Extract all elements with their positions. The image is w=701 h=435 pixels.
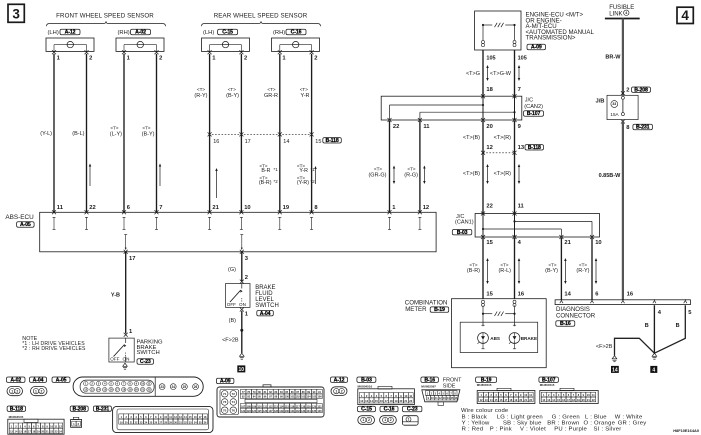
svg-text:SIDE: SIDE <box>443 383 456 389</box>
svg-text:A-12: A-12 <box>334 377 345 383</box>
svg-text:108: 108 <box>247 405 252 408</box>
svg-text:10: 10 <box>141 382 144 386</box>
svg-text:(GR-G): (GR-G) <box>368 173 386 179</box>
svg-text:(B-Y): (B-Y) <box>142 131 155 137</box>
svg-text:MU804545: MU804545 <box>9 415 24 419</box>
svg-text:(L-Y): (L-Y) <box>110 131 122 137</box>
svg-text:OFF: OFF <box>110 357 119 362</box>
svg-text:B-03: B-03 <box>361 377 372 383</box>
svg-text:16: 16 <box>380 399 383 403</box>
svg-text:A-05: A-05 <box>20 222 31 228</box>
svg-text:MU804515: MU804515 <box>477 383 492 387</box>
svg-text:(R-L): (R-L) <box>498 268 511 274</box>
svg-text:R : Red: R : Red <box>462 427 484 433</box>
svg-text:134: 134 <box>307 410 312 413</box>
svg-text:131: 131 <box>290 410 295 413</box>
svg-text:2: 2 <box>16 389 18 393</box>
svg-text:26: 26 <box>194 385 198 389</box>
svg-text:18: 18 <box>122 388 125 392</box>
svg-text:B-231: B-231 <box>636 125 650 131</box>
svg-text:133: 133 <box>301 410 306 413</box>
svg-text:ABS: ABS <box>490 336 500 341</box>
svg-text:<T>: <T> <box>142 125 150 130</box>
svg-text:136: 136 <box>317 410 322 413</box>
svg-text:OFF: OFF <box>227 302 236 307</box>
svg-text:104: 104 <box>307 396 312 399</box>
svg-text:(B-Y): (B-Y) <box>545 268 558 274</box>
svg-text:1: 1 <box>11 389 13 393</box>
svg-text:22: 22 <box>393 124 399 130</box>
svg-text:(Y-L): (Y-L) <box>40 131 52 137</box>
svg-text:33: 33 <box>612 102 616 106</box>
svg-text:Y-B: Y-B <box>111 292 120 298</box>
svg-text:1: 1 <box>362 418 364 422</box>
svg-text:4: 4 <box>625 11 627 15</box>
svg-text:(LH): (LH) <box>48 30 59 36</box>
svg-text:12: 12 <box>423 205 429 211</box>
svg-text:1: 1 <box>408 417 410 421</box>
svg-text:72: 72 <box>232 392 236 396</box>
svg-text:20: 20 <box>486 124 492 130</box>
svg-text:A-12: A-12 <box>65 30 76 36</box>
svg-text:120: 120 <box>312 405 317 408</box>
svg-text:4: 4 <box>681 8 689 23</box>
svg-text:71: 71 <box>223 392 227 396</box>
svg-text:19: 19 <box>395 399 398 403</box>
svg-text:21: 21 <box>404 399 407 403</box>
svg-text:SWITCH: SWITCH <box>137 350 160 356</box>
svg-text:21: 21 <box>564 240 571 246</box>
svg-text:<T>G: <T>G <box>466 71 480 77</box>
svg-text:A-02: A-02 <box>10 377 21 383</box>
svg-text:23: 23 <box>160 385 164 389</box>
svg-text:0.85B-W: 0.85B-W <box>599 173 622 179</box>
svg-text:*2: *2 <box>274 179 279 184</box>
svg-text:22: 22 <box>409 399 412 403</box>
svg-text:(LH): (LH) <box>203 30 214 36</box>
svg-text:18: 18 <box>486 87 493 93</box>
svg-text:<T>: <T> <box>300 87 308 92</box>
svg-text:(R-Y): (R-Y) <box>194 93 207 99</box>
svg-text:GR : Grey: GR : Grey <box>618 421 647 427</box>
svg-text:2: 2 <box>341 389 343 393</box>
svg-text:MU804516: MU804516 <box>358 385 373 389</box>
svg-text:17: 17 <box>116 388 119 392</box>
svg-text:73: 73 <box>223 400 227 404</box>
svg-text:B-03: B-03 <box>457 230 468 236</box>
svg-text:C-16: C-16 <box>384 407 395 413</box>
svg-text:25: 25 <box>183 385 187 389</box>
svg-text:21: 21 <box>212 205 219 211</box>
svg-text:*1: *1 <box>274 167 279 172</box>
svg-text:<T>: <T> <box>500 262 508 267</box>
svg-text:19: 19 <box>129 388 132 392</box>
svg-text:<T>: <T> <box>374 166 382 171</box>
svg-text:(RH): (RH) <box>273 30 285 36</box>
svg-text:C-15: C-15 <box>361 407 372 413</box>
svg-text:107: 107 <box>241 405 246 408</box>
svg-text:H8F10E164A0: H8F10E164A0 <box>673 428 699 433</box>
svg-text:128: 128 <box>274 410 279 413</box>
svg-text:A-09: A-09 <box>531 45 542 51</box>
svg-text:<T>: <T> <box>110 125 118 130</box>
svg-text:13: 13 <box>365 399 368 403</box>
svg-text:BRAKE: BRAKE <box>521 336 537 341</box>
svg-text:<T>: <T> <box>267 87 275 92</box>
svg-text:FUSIBLE: FUSIBLE <box>609 5 634 11</box>
svg-text:132: 132 <box>296 410 301 413</box>
svg-text:<T>: <T> <box>469 262 477 267</box>
svg-text:11: 11 <box>423 124 430 130</box>
svg-text:17: 17 <box>129 256 135 262</box>
svg-text:15A: 15A <box>610 112 619 117</box>
svg-text:135: 135 <box>312 410 317 413</box>
svg-text:106: 106 <box>317 396 322 399</box>
svg-text:101: 101 <box>290 396 295 399</box>
svg-text:12: 12 <box>360 399 363 403</box>
svg-text:<T>(B): <T>(B) <box>463 171 480 177</box>
svg-text:J/C: J/C <box>525 98 533 104</box>
svg-text:22: 22 <box>89 205 95 211</box>
svg-text:2: 2 <box>159 56 162 62</box>
svg-text:<T>: <T> <box>579 262 587 267</box>
svg-text:20: 20 <box>135 388 138 392</box>
svg-text:B: B <box>676 323 680 329</box>
svg-text:Wire colour code: Wire colour code <box>461 408 509 414</box>
svg-text:2: 2 <box>244 56 247 62</box>
svg-text:2: 2 <box>626 88 629 94</box>
svg-text:10: 10 <box>239 367 245 373</box>
svg-text:12: 12 <box>486 145 492 151</box>
svg-text:7: 7 <box>518 87 521 93</box>
svg-text:11: 11 <box>57 205 64 211</box>
svg-text:(CAN1): (CAN1) <box>455 220 474 226</box>
svg-text:123: 123 <box>247 410 252 413</box>
svg-text:20: 20 <box>399 399 402 403</box>
svg-text:<T>(B): <T>(B) <box>463 135 480 141</box>
svg-text:2: 2 <box>41 389 43 393</box>
svg-text:<T>(R): <T>(R) <box>494 171 512 177</box>
svg-text:B-208: B-208 <box>73 406 87 412</box>
svg-text:*2: *2 <box>311 179 316 184</box>
svg-text:B: B <box>645 323 649 329</box>
svg-text:<F>2B: <F>2B <box>222 338 239 344</box>
svg-text:118: 118 <box>301 405 306 408</box>
svg-text:116: 116 <box>290 405 295 408</box>
svg-text:13: 13 <box>518 145 525 151</box>
svg-text:A-04: A-04 <box>33 377 44 383</box>
svg-text:B-R: B-R <box>261 168 270 174</box>
svg-text:A-05: A-05 <box>56 377 67 383</box>
svg-text:<T>: <T> <box>197 87 205 92</box>
svg-text:24: 24 <box>171 385 175 389</box>
svg-text:Y-R: Y-R <box>301 93 310 99</box>
svg-text:113: 113 <box>274 405 279 408</box>
svg-text:(B): (B) <box>229 318 237 324</box>
svg-text:(B-L): (B-L) <box>72 131 84 137</box>
svg-text:17: 17 <box>245 139 251 145</box>
svg-text:14: 14 <box>564 291 571 297</box>
svg-text:10: 10 <box>404 394 407 398</box>
svg-text:(B-Y): (B-Y) <box>226 93 239 99</box>
svg-text:B-16: B-16 <box>560 321 571 327</box>
svg-text:2: 2 <box>368 418 370 422</box>
svg-text:14: 14 <box>370 399 373 403</box>
svg-text:FRONT WHEEL SPEED SENSOR: FRONT WHEEL SPEED SENSOR <box>56 13 154 20</box>
svg-text:127: 127 <box>268 410 273 413</box>
svg-text:15: 15 <box>103 388 106 392</box>
svg-text:15: 15 <box>486 291 493 297</box>
svg-text:105: 105 <box>312 396 317 399</box>
svg-text:3: 3 <box>12 6 20 21</box>
svg-text:103: 103 <box>301 396 306 399</box>
svg-text:B-118: B-118 <box>10 406 23 412</box>
svg-text:(B-R): (B-R) <box>467 268 480 274</box>
svg-text:PU : Purple: PU : Purple <box>554 427 587 433</box>
svg-text:C-23: C-23 <box>407 407 418 413</box>
svg-text:B-208: B-208 <box>634 87 648 93</box>
svg-text:A-09: A-09 <box>220 379 231 385</box>
svg-text:(R-Y): (R-Y) <box>576 268 589 274</box>
svg-text:105: 105 <box>486 55 495 61</box>
svg-text:*1: *1 <box>311 167 316 172</box>
svg-text:15: 15 <box>375 399 378 403</box>
svg-text:13: 13 <box>91 388 94 392</box>
svg-text:124: 124 <box>252 410 257 413</box>
svg-text:A-04: A-04 <box>260 311 271 317</box>
svg-text:16: 16 <box>627 291 634 297</box>
svg-text:<T>(R): <T>(R) <box>494 135 512 141</box>
svg-text:1: 1 <box>384 418 386 422</box>
svg-text:B-16: B-16 <box>424 377 435 383</box>
svg-text:14: 14 <box>97 388 100 392</box>
svg-text:129: 129 <box>279 410 284 413</box>
svg-text:2: 2 <box>245 275 248 281</box>
svg-text:TRANSMISSION>: TRANSMISSION> <box>526 35 576 42</box>
svg-text:2: 2 <box>390 418 392 422</box>
svg-text:(G): (G) <box>228 267 236 273</box>
svg-text:B-118: B-118 <box>528 145 541 151</box>
svg-text:C-15: C-15 <box>222 30 233 36</box>
svg-text:22: 22 <box>148 388 151 392</box>
svg-text:<T>: <T> <box>228 87 236 92</box>
svg-text:ABS-ECU: ABS-ECU <box>5 214 34 221</box>
svg-text:18: 18 <box>390 399 393 403</box>
svg-text:16: 16 <box>110 388 113 392</box>
svg-text:<T>: <T> <box>407 166 415 171</box>
svg-text:(B-R): (B-R) <box>259 180 272 186</box>
svg-text:CONNECTOR: CONNECTOR <box>556 313 596 320</box>
svg-text:C-16: C-16 <box>291 30 302 36</box>
svg-text:B-19: B-19 <box>434 307 445 313</box>
svg-text:102: 102 <box>296 396 301 399</box>
svg-text:GR-R: GR-R <box>264 93 278 99</box>
svg-text:119: 119 <box>307 405 312 408</box>
svg-text:(R-G): (R-G) <box>404 173 418 179</box>
svg-text:B-231: B-231 <box>96 406 110 412</box>
svg-text:1: 1 <box>335 389 337 393</box>
svg-text:P : Pink: P : Pink <box>490 427 512 433</box>
svg-text:126: 126 <box>263 410 268 413</box>
svg-text:125: 125 <box>257 410 262 413</box>
svg-text:121: 121 <box>317 405 322 408</box>
svg-text:111: 111 <box>263 405 268 408</box>
svg-text:B-118: B-118 <box>326 138 339 144</box>
svg-text:19: 19 <box>283 205 290 211</box>
svg-text:109: 109 <box>252 405 257 408</box>
svg-text:15: 15 <box>486 240 493 246</box>
svg-text:MU802597: MU802597 <box>421 385 436 389</box>
svg-text:16: 16 <box>213 139 219 145</box>
svg-text:A-02: A-02 <box>135 30 146 36</box>
svg-text:2: 2 <box>89 56 92 62</box>
svg-text:(Y-R): (Y-R) <box>297 180 309 186</box>
svg-text:ON: ON <box>239 302 246 307</box>
svg-text:7: 7 <box>159 205 162 211</box>
svg-text:74: 74 <box>232 400 236 404</box>
svg-text:<F>2B: <F>2B <box>596 344 613 350</box>
svg-text:114: 114 <box>279 405 284 408</box>
svg-text:117: 117 <box>296 405 301 408</box>
svg-text:76: 76 <box>232 408 236 412</box>
svg-text:100: 100 <box>285 396 290 399</box>
svg-text:<T>: <T> <box>548 262 556 267</box>
svg-text:<T>G-W: <T>G-W <box>490 71 512 77</box>
svg-text:J/B: J/B <box>595 98 604 104</box>
svg-text:(RH): (RH) <box>118 30 130 36</box>
svg-text:16: 16 <box>518 291 525 297</box>
svg-text:110: 110 <box>258 405 263 408</box>
svg-text:21: 21 <box>141 388 144 392</box>
svg-text:15: 15 <box>315 139 321 145</box>
svg-text:SI : Silver: SI : Silver <box>594 427 622 433</box>
svg-text:130: 130 <box>285 410 290 413</box>
svg-text:REAR WHEEL SPEED SENSOR: REAR WHEEL SPEED SENSOR <box>214 13 308 20</box>
svg-text:METER: METER <box>405 306 427 313</box>
svg-text:12: 12 <box>84 388 87 392</box>
svg-text:Y-R: Y-R <box>299 168 308 174</box>
svg-text:14: 14 <box>612 368 618 374</box>
svg-text:SWITCH: SWITCH <box>255 303 279 309</box>
svg-text:10: 10 <box>595 240 601 246</box>
svg-text:V : Violet: V : Violet <box>520 427 546 433</box>
svg-text:(CAN2): (CAN2) <box>524 104 543 110</box>
svg-text:B-107: B-107 <box>527 111 541 117</box>
svg-text:112: 112 <box>268 405 273 408</box>
svg-text:75: 75 <box>223 408 227 412</box>
svg-text:C-23: C-23 <box>140 359 151 365</box>
svg-text:115: 115 <box>285 405 290 408</box>
svg-text:14: 14 <box>283 139 289 145</box>
svg-text:BR-W: BR-W <box>605 55 621 61</box>
svg-text:22: 22 <box>486 204 492 210</box>
svg-text:17: 17 <box>385 399 388 403</box>
svg-text:4: 4 <box>652 368 655 374</box>
svg-text:*2 : RH DRIVE VEHICLES: *2 : RH DRIVE VEHICLES <box>22 346 86 352</box>
svg-text:MU804515: MU804515 <box>540 383 555 387</box>
svg-text:105: 105 <box>518 55 527 61</box>
svg-text:2: 2 <box>314 56 317 62</box>
svg-text:LINK: LINK <box>609 11 622 17</box>
svg-text:122: 122 <box>241 410 246 413</box>
svg-text:1: 1 <box>35 389 37 393</box>
svg-text:11: 11 <box>518 204 525 210</box>
svg-text:10: 10 <box>244 205 250 211</box>
